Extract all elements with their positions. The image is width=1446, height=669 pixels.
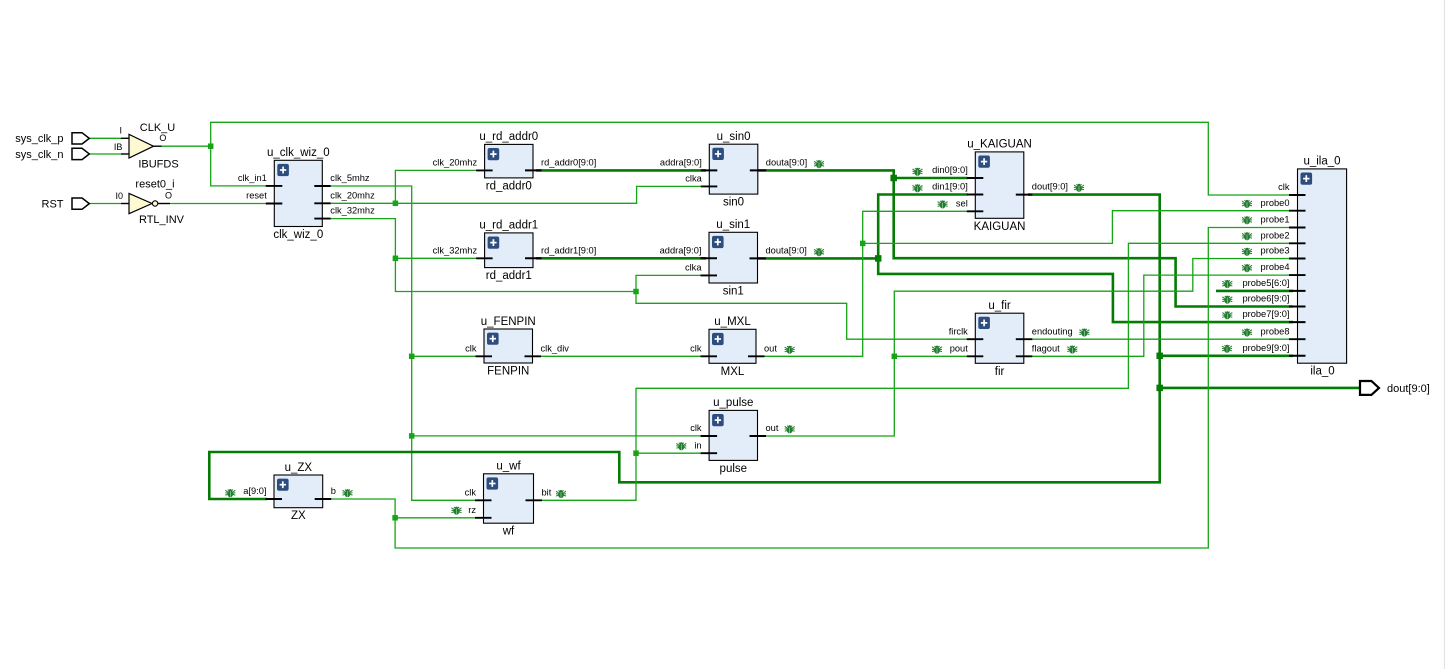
svg-text:probe2: probe2 [1261,230,1290,240]
debug marker on sin0 douta [814,161,824,167]
junction clk_32mhz at sin1 branch [633,289,639,295]
debug marker on KAIGUAN dout [1074,184,1084,190]
module u_wf (wf) block body [484,474,534,523]
svg-text:rz: rz [468,505,476,515]
svg-text:dout[9:0]: dout[9:0] [1387,383,1430,395]
u_fir pin pout [967,355,984,357]
wire ZX b to ila_0 probe1 (bottom route) [327,228,1290,549]
svg-text:rd_addr0[9:0]: rd_addr0[9:0] [541,158,596,168]
wire clk_div FENPIN to MXL [536,355,701,357]
svg-text:u_MXL: u_MXL [714,316,751,328]
svg-text:out: out [764,343,777,353]
u_ila_0 pin probe3 [1289,258,1306,260]
wire clk_5mhz branch to pulse clk [412,435,701,437]
svg-text:u_FENPIN: u_FENPIN [481,316,536,328]
svg-text:u_ZX: u_ZX [285,462,313,474]
u_KAIGUAN pin dout[9:0] [1016,194,1033,196]
debug marker on pulse out [785,426,795,432]
svg-text:clk_32mhz: clk_32mhz [330,206,375,216]
svg-text:IBUFDS: IBUFDS [138,158,178,170]
u_clk_wiz_0 pin clk_20mhz [314,202,331,204]
input port sys_clk_n [72,148,89,159]
u_ila_0 pin probe7[9:0] [1289,321,1306,323]
bus rd_addr0[9:0] to sin0 addra [536,169,706,172]
svg-text:RST: RST [42,199,64,211]
svg-text:clk_wiz_0: clk_wiz_0 [273,229,323,241]
svg-text:dout[9:0]: dout[9:0] [1032,182,1068,192]
svg-text:rd_addr1[9:0]: rd_addr1[9:0] [541,245,596,255]
debug marker on fir endouting [1079,329,1089,335]
debug marker on ila probe9 [1222,345,1232,351]
svg-text:clk_in1: clk_in1 [238,173,267,183]
debug marker on ZX b [343,490,353,496]
junction pulse out net at fir pout [892,354,898,360]
u_wf pin rz [475,517,492,519]
svg-text:bit: bit [542,487,552,497]
svg-text:b: b [331,486,336,496]
svg-text:probe0: probe0 [1261,198,1290,208]
u_rd_addr0 pin rd_addr0[9:0] [525,169,542,171]
svg-text:sin0: sin0 [723,197,744,209]
debug marker on pulse in [676,443,686,449]
junction clk_32mhz at rd_addr1 branch [393,256,399,261]
svg-text:pulse: pulse [720,463,748,475]
junction dout bus at probe9 [1156,353,1163,360]
junction clk_20mhz [393,201,399,207]
u_ila_0 pin clk [1289,194,1306,196]
debug marker on fir flagout [1067,346,1077,352]
junction clk_5mhz at FENPIN branch [409,354,415,360]
svg-text:u_rd_addr0: u_rd_addr0 [479,131,538,143]
module u_FENPIN (FENPIN) block body [484,329,533,363]
u_sin1 pin addra[9:0] [701,257,718,259]
wire fir endouting to ila_0 probe8 [1028,338,1290,340]
svg-text:CLK_U: CLK_U [140,122,176,134]
svg-text:pout: pout [950,343,969,353]
wire clk_32mhz to fir firclk [636,292,968,340]
svg-text:sys_clk_n: sys_clk_n [15,149,63,161]
u_KAIGUAN pin sel [967,210,984,212]
u_fir pin firclk [967,338,984,340]
u_ila_0 pin probe0 [1289,210,1306,212]
debug marker on ila probe3 [1242,248,1252,254]
debug marker on ila probe6 [1222,296,1232,302]
module u_MXL (MXL) block body [709,329,756,363]
debug marker on KAIGUAN sel [938,201,948,207]
wire MXL out to KAIGUAN sel [752,211,968,356]
svg-text:a[9:0]: a[9:0] [243,486,266,496]
svg-text:douta[9:0]: douta[9:0] [766,158,807,168]
svg-text:rd_addr0: rd_addr0 [486,180,532,192]
debug marker on ila probe5 [1222,280,1232,286]
u_MXL pin clk [701,355,718,357]
debug marker on wf rz [452,507,462,513]
svg-text:clk_32mhz: clk_32mhz [433,245,478,255]
u_MXL pin out [748,355,765,357]
svg-text:douta[9:0]: douta[9:0] [766,246,807,256]
buffer U0 IBUFDS (CLK_U) [121,134,162,158]
wire pulse out to ila_0 probe3 [762,259,1290,437]
wire CLK_U from IBUFDS O [162,145,211,147]
module u_sin1 (sin1) block body [709,232,758,283]
svg-text:din0[9:0]: din0[9:0] [932,165,968,175]
debug marker on ila probe4 [1242,265,1252,271]
u_clk_wiz_0 pin clk_in1 [266,185,283,187]
svg-text:clka: clka [685,174,702,184]
wire clk_5mhz branch to FENPIN clk [412,355,476,357]
u_ila_0 pin probe1 [1289,227,1306,229]
pane separator line at right edge [1444,0,1446,669]
svg-text:FENPIN: FENPIN [487,366,529,378]
junction din0 bus [890,175,897,182]
svg-text:clk: clk [465,343,477,353]
debug marker on KAIGUAN din0 [913,168,923,174]
svg-text:wf: wf [502,526,515,538]
debug marker on ila probe2 [1242,233,1252,239]
svg-text:RTL_INV: RTL_INV [139,214,185,226]
wire reset0_i RTL_INV O to clk_wiz_0 reset [170,203,267,205]
debug marker on ZX a [225,490,235,496]
debug marker on ila probe0 [1242,200,1252,206]
module u_clk_wiz_0 (clk_wiz_0) block body [274,160,322,226]
wire clk_20mhz to sin0 clka [331,186,701,203]
svg-text:O: O [159,133,166,143]
debug marker on ila probe8 [1242,329,1252,335]
u_pulse pin out [750,435,767,437]
svg-text:u_ila_0: u_ila_0 [1303,156,1340,168]
debug marker on ila probe1 [1242,217,1252,223]
module u_rd_addr0 (rd_addr0) block body [485,144,533,178]
module u_ila_0 (ila_0) block body [1298,169,1347,363]
u_rd_addr1 pin clk_32mhz [476,257,493,259]
junction clk_5mhz at pulse branch [409,433,415,439]
svg-text:u_pulse: u_pulse [713,397,753,409]
svg-text:rd_addr1: rd_addr1 [486,270,532,282]
wire CLK_U to clk_wiz_0 clk_in1 [211,146,267,186]
svg-text:probe4: probe4 [1261,262,1290,272]
svg-text:u_KAIGUAN: u_KAIGUAN [967,139,1032,151]
bus din1 net to ila_0 probe7 [878,258,1293,322]
u_sin0 pin douta[9:0] [750,169,767,171]
svg-text:u_fir: u_fir [988,300,1011,312]
wire ZX b branch to wf rz [395,517,475,519]
u_rd_addr1 pin rd_addr1[9:0] [525,257,542,259]
bus rd_addr1[9:0] to sin1 addra [536,257,706,260]
svg-text:din1[9:0]: din1[9:0] [932,182,968,192]
bus din0 net to ila_0 probe6 [894,178,1293,307]
svg-text:O: O [165,191,172,201]
wire wf bit branch to pulse in [636,452,701,454]
debug marker on wf bit [556,490,566,496]
bus sin1 douta [754,257,878,260]
u_pulse pin in [701,452,718,454]
u_ZX pin a[9:0] [266,498,283,500]
output port dout[9:0] [1360,381,1379,395]
u_sin1 pin douta[9:0] [750,257,767,259]
junction din1 bus [875,255,882,262]
svg-text:sin1: sin1 [723,286,744,298]
svg-text:sel: sel [956,198,968,208]
bus din1 net up to KAIGUAN din1 [878,195,967,259]
svg-text:I0: I0 [115,191,123,201]
u_ila_0 pin probe4 [1289,274,1306,276]
svg-text:out: out [766,423,779,433]
svg-text:probe9[9:0]: probe9[9:0] [1242,343,1289,353]
debug marker on fir pout [932,346,942,352]
module u_sin0 (sin0) block body [709,144,758,194]
wire clk_20mhz branch to rd_addr0 clk [395,170,476,203]
wire MXL out branch to ila_0 probe0 [863,211,1290,244]
svg-text:probe7[9:0]: probe7[9:0] [1242,309,1289,319]
svg-text:endouting: endouting [1032,326,1073,336]
svg-text:clk_20mhz: clk_20mhz [433,158,478,168]
svg-text:probe5[6:0]: probe5[6:0] [1242,278,1289,288]
bus dout branch to output port dout[9:0] [1160,387,1361,390]
wire clk_5mhz main route to wf clk [331,186,475,500]
inverter RTL_INV (reset0_i) [121,193,170,213]
module u_pulse (pulse) block body [709,410,757,460]
svg-text:u_clk_wiz_0: u_clk_wiz_0 [267,147,330,159]
module u_ZX (ZX) block body [274,475,323,508]
svg-text:clk_div: clk_div [541,343,570,353]
bus sin0 douta to KAIGUAN din0 [754,170,968,178]
u_ila_0 pin probe6[9:0] [1289,306,1306,308]
svg-text:firclk: firclk [949,326,968,336]
junction dout bus at output port [1156,385,1163,392]
u_KAIGUAN pin din1[9:0] [967,194,984,196]
svg-text:clka: clka [685,263,702,273]
svg-text:clk_5mhz: clk_5mhz [330,173,370,183]
junction CLK_U net [208,143,214,149]
bus probe5[6:0] wire into ila_0 [1216,290,1293,293]
debug marker on KAIGUAN din1 [913,185,923,191]
svg-text:clk: clk [1278,182,1290,192]
svg-text:in: in [694,440,701,450]
svg-text:IB: IB [114,142,123,152]
u_ila_0 pin probe8 [1289,338,1306,340]
svg-text:flagout: flagout [1032,343,1060,353]
svg-text:clk: clk [690,423,702,433]
input port sys_clk_p [72,133,89,144]
bus dout branch to ila_0 probe9 [1160,354,1293,357]
wire clk_32mhz branch to rd_addr1 clk [395,257,476,259]
module u_KAIGUAN (KAIGUAN) block body [975,152,1024,218]
wire wf bit to ila_0 probe2 [538,243,1290,500]
svg-text:clk: clk [690,343,702,353]
svg-text:ZX: ZX [291,510,306,522]
u_clk_wiz_0 pin reset [266,203,283,205]
svg-text:u_sin1: u_sin1 [716,219,750,231]
svg-text:reset: reset [246,191,267,201]
u_sin1 pin clka [701,274,718,276]
svg-text:clk: clk [465,487,477,497]
svg-text:I: I [119,125,122,135]
module u_rd_addr1 (rd_addr1) block body [485,233,533,268]
junction MXL out net [860,241,866,247]
junction wf bit net at pulse in [633,450,639,456]
u_ila_0 pin probe2 [1289,242,1306,244]
wire fir flagout to ila_0 probe4 [1028,275,1290,356]
svg-text:probe3: probe3 [1261,246,1290,256]
u_rd_addr0 pin clk_20mhz [476,169,493,171]
svg-text:probe8: probe8 [1261,326,1290,336]
debug marker on ila probe7 [1222,312,1232,318]
u_clk_wiz_0 pin clk_32mhz [314,218,331,220]
u_pulse pin clk [701,435,718,437]
u_sin0 pin clka [701,185,718,187]
input port RST [72,198,89,209]
svg-text:probe1: probe1 [1261,215,1290,225]
debug marker on MXL out [785,346,795,352]
u_wf pin bit [526,499,543,501]
u_sin0 pin addra[9:0] [701,169,718,171]
u_ZX pin b [315,498,332,500]
svg-text:addra[9:0]: addra[9:0] [660,245,702,255]
u_FENPIN pin clk_div [525,355,542,357]
wire clk_32mhz to sin1 clka [636,275,701,291]
wire sys_clk_n to IBUFDS IB [89,153,121,155]
svg-text:fir: fir [995,366,1005,378]
wire pulse out branch to fir pout [894,355,967,357]
svg-text:reset0_i: reset0_i [135,178,174,190]
u_KAIGUAN pin din0[9:0] [967,177,984,179]
wire CLK_U to ila_0 clk (top route) [211,122,1290,195]
u_FENPIN pin clk [476,355,493,357]
bus dout[9:0] from KAIGUAN to ZX a [209,195,1159,499]
svg-text:ila_0: ila_0 [1310,366,1334,378]
wire sys_clk_p to IBUFDS I [89,137,121,139]
u_fir pin flagout [1016,355,1033,357]
svg-text:u_rd_addr1: u_rd_addr1 [479,220,538,232]
u_wf pin clk [475,499,492,501]
debug marker on sin1 douta [814,249,824,255]
svg-text:sys_clk_p: sys_clk_p [15,133,63,145]
svg-text:clk_20mhz: clk_20mhz [330,190,375,200]
svg-text:MXL: MXL [721,366,745,378]
u_ila_0 pin probe5[6:0] [1289,290,1306,292]
module u_fir (fir) block body [975,313,1024,363]
junction ZX b net at wf rz [392,515,398,521]
svg-text:u_wf: u_wf [496,461,521,473]
wire RST to RTL_INV I0 [89,203,121,205]
wire clk_32mhz down route [331,219,636,292]
svg-text:KAIGUAN: KAIGUAN [974,221,1026,233]
u_ila_0 pin probe9[9:0] [1289,355,1306,357]
svg-text:addra[9:0]: addra[9:0] [660,158,702,168]
u_clk_wiz_0 pin clk_5mhz [314,185,331,187]
svg-text:u_sin0: u_sin0 [717,131,751,143]
u_fir pin endouting [1016,338,1033,340]
svg-text:probe6[9:0]: probe6[9:0] [1242,294,1289,304]
